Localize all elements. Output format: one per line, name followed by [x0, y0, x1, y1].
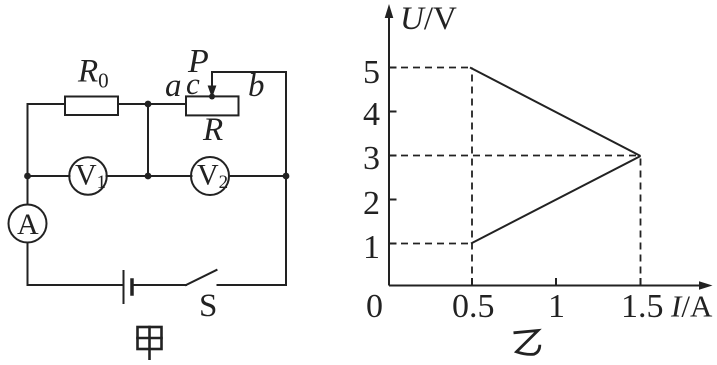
- battery long plate: [123, 271, 125, 303]
- wire V1 to node a column: [107, 175, 149, 177]
- wire slider stem: [211, 72, 213, 86]
- voltmeter V2 circle: [191, 157, 229, 195]
- svg-text:0.5: 0.5: [452, 288, 495, 325]
- node junction left row: [24, 173, 31, 180]
- dashed line I=0.5: [471, 68, 473, 286]
- node junction a column bottom: [145, 173, 152, 180]
- wire row: left node to V1: [28, 175, 70, 177]
- wire top left to R0: [28, 103, 66, 105]
- slider P arrowhead: [208, 86, 217, 99]
- wire node a down to V1-V2 row: [147, 104, 149, 176]
- x tick 1.5: [640, 278, 642, 286]
- label yi (caption): [514, 331, 540, 355]
- dashed line U=1: [389, 243, 471, 245]
- ammeter A circle: [9, 205, 47, 243]
- svg-text:0: 0: [366, 288, 383, 325]
- wire left vertical bottom segment: [27, 243, 29, 286]
- svg-text:R: R: [202, 112, 223, 148]
- svg-text:1.5: 1.5: [621, 288, 664, 325]
- svg-text:1: 1: [548, 288, 565, 325]
- wire battery to switch: [134, 284, 186, 286]
- node junction a: [145, 101, 152, 108]
- resistor R0: [65, 97, 118, 116]
- wire bottom left to battery: [28, 284, 123, 286]
- dashed line U=3: [389, 155, 641, 157]
- x-axis arrowhead: [699, 281, 713, 290]
- svg-text:1: 1: [363, 229, 380, 266]
- slider contact dot c: [209, 94, 215, 100]
- label jia (caption): [138, 327, 162, 359]
- wire slider top horizontal: [212, 71, 286, 73]
- svg-text:b: b: [248, 68, 265, 104]
- dashed line U=5: [389, 67, 470, 69]
- svg-text:S: S: [199, 288, 217, 324]
- wire left vertical top segment: [27, 104, 29, 205]
- svg-text:I/A: I/A: [670, 289, 713, 324]
- wire V2 to right wire: [229, 175, 286, 177]
- svg-text:5: 5: [363, 54, 380, 91]
- svg-text:U/V: U/V: [400, 1, 457, 37]
- wire switch to right corner: [218, 284, 287, 286]
- node junction right row: [283, 173, 290, 180]
- x-axis I: [389, 285, 701, 287]
- svg-text:c: c: [186, 66, 200, 101]
- y tick 1: [389, 243, 397, 245]
- svg-text:2: 2: [363, 185, 380, 222]
- wire R0 to rheostat: [118, 103, 186, 105]
- y tick 3: [389, 155, 397, 157]
- svg-text:4: 4: [363, 96, 380, 133]
- x tick 0.5: [471, 278, 473, 286]
- y tick 4: [389, 111, 397, 113]
- battery short plate: [130, 280, 134, 294]
- y-axis U: [389, 17, 701, 286]
- svg-text:A: A: [17, 208, 39, 241]
- wire right vertical upper: [285, 72, 287, 176]
- switch S blade: [186, 270, 217, 285]
- y tick 2: [389, 199, 397, 201]
- y tick 5: [389, 67, 397, 69]
- svg-text:3: 3: [363, 140, 380, 177]
- voltmeter V1 circle: [69, 157, 107, 195]
- x tick 1: [555, 278, 557, 286]
- dashed line I=1.5: [640, 156, 642, 286]
- svg-text:a: a: [165, 68, 182, 104]
- wire node to V2: [148, 175, 192, 177]
- rheostat R body: [186, 96, 239, 115]
- data line lower (1V rising): [471, 156, 641, 244]
- wire right vertical lower: [285, 176, 287, 285]
- y-axis arrowhead: [385, 4, 394, 18]
- data line upper (5V falling): [470, 68, 641, 157]
- svg-text:R0: R0: [77, 54, 109, 93]
